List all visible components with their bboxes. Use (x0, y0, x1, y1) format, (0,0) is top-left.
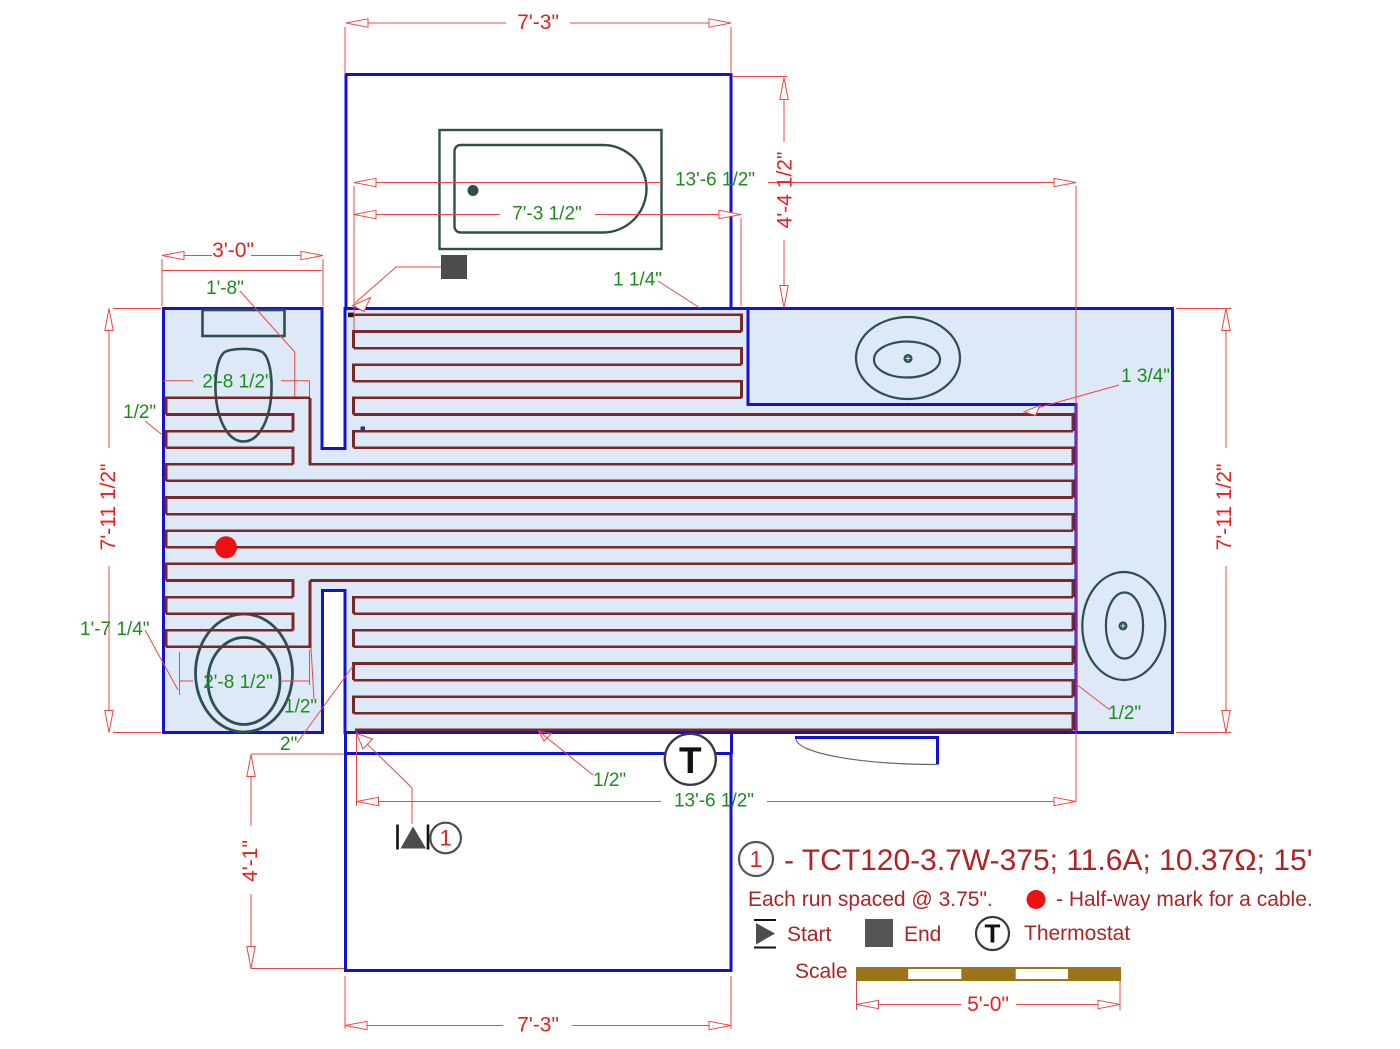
svg-text:- TCT120-3.7W-375; 11.6A; 10.3: - TCT120-3.7W-375; 11.6A; 10.37Ω; 15' (784, 844, 1312, 877)
bathtub inner basin (455, 145, 647, 233)
svg-text:7'-3": 7'-3" (517, 11, 559, 34)
heating cable run 22 (354, 680, 1074, 697)
svg-text:Each run spaced @ 3.75".: Each run spaced @ 3.75". (748, 888, 993, 911)
legend start symbol (754, 920, 776, 948)
sink right outer (1082, 572, 1165, 680)
svg-text:T: T (679, 740, 702, 781)
wall stub left of bottom room doorway (344, 733, 347, 755)
heating cable run 20 toilet room + riser (166, 581, 310, 647)
heating cable run 16 toilet room (166, 581, 293, 598)
heating cable run 4 (354, 381, 742, 398)
svg-text:1 1/4": 1 1/4" (613, 270, 662, 291)
heating cable run 11 full width (166, 498, 1073, 515)
dimension 3'-0" (162, 256, 323, 307)
heating cable run 24 (354, 713, 1074, 730)
wall stub right of bottom room (730, 734, 733, 755)
svg-text:1/2": 1/2" (284, 697, 317, 718)
legend end symbol (865, 919, 893, 947)
svg-text:2": 2" (280, 734, 297, 755)
heating cable run 25 (start run) (357, 730, 1074, 734)
heating cable run 2 (354, 348, 742, 365)
svg-text:13'-6 1/2": 13'-6 1/2" (675, 170, 755, 191)
door swing arc (796, 739, 937, 765)
heating cable run 3 (354, 365, 742, 382)
svg-text:7'-3 1/2": 7'-3 1/2" (512, 204, 582, 225)
svg-text:1'-7 1/4": 1'-7 1/4" (80, 619, 150, 640)
sink right inner (1106, 593, 1143, 659)
toilet 2 bowl inner (208, 638, 280, 725)
heating cable run 5 center (354, 398, 742, 415)
heating cable run 13 full width (166, 531, 1073, 548)
heating cable run 15 full width (166, 564, 1073, 581)
svg-text:1 3/4": 1 3/4" (1121, 366, 1170, 387)
svg-text:7'-3": 7'-3" (517, 1014, 559, 1037)
START circle 1 (430, 823, 461, 854)
svg-text:1/2": 1/2" (1108, 703, 1141, 724)
heating cable run 20 center (354, 647, 1074, 664)
svg-text:Scale: Scale (795, 960, 848, 983)
toilet 1 tank (203, 310, 285, 336)
svg-text:5'-0": 5'-0" (967, 993, 1009, 1016)
heating cable run 8 center (354, 448, 1074, 465)
dimension 4'-4 1/2" (vertical) (732, 77, 787, 307)
heating cable run 0 (end run) (349, 315, 742, 332)
svg-text:3'-0": 3'-0" (212, 239, 254, 262)
svg-text:1'-8": 1'-8" (206, 278, 244, 299)
heating cable run 19 center (354, 630, 1074, 647)
heating cable run 21 (354, 664, 1074, 681)
label 2-8 1/2 top dimension (164, 381, 310, 397)
cable START marker |triangle| (398, 825, 429, 850)
bathtub outer rim (440, 130, 662, 249)
heating cable run 10 full width (166, 481, 1073, 498)
svg-text:- Half-way mark for a cable.: - Half-way mark for a cable. (1056, 888, 1313, 911)
svg-text:2'-8 1/2": 2'-8 1/2" (202, 372, 272, 393)
svg-text:1/2": 1/2" (593, 770, 626, 791)
heating cable run 16 right (310, 581, 1073, 598)
heating cable run 17 toilet room (166, 597, 293, 614)
dimension 13'-6 1/2" bottom (357, 734, 1077, 806)
svg-text:7'-11 1/2": 7'-11 1/2" (97, 464, 120, 551)
heating cable run 19 toilet room (166, 630, 293, 647)
svg-text:1/2": 1/2" (123, 402, 156, 423)
heating cable run 8 toilet room (166, 448, 293, 465)
svg-text:1: 1 (439, 826, 451, 851)
dimension 7'-3" bottom (345, 976, 731, 1029)
heating cable run 12 full width (166, 514, 1073, 531)
heating cable run 7 center (354, 431, 1074, 448)
dimension 4'-1" (vertical, bottom room) (251, 754, 344, 969)
heating cable run 14 full width (half-way dot run) (166, 547, 1073, 564)
legend thermostat symbol (976, 917, 1009, 950)
svg-text:2'-8 1/2": 2'-8 1/2" (203, 672, 273, 693)
dimension 7'-3 1/2" (354, 215, 741, 307)
heating cable run 6 toilet room (166, 415, 293, 432)
bottom room outline (346, 754, 732, 971)
toilet 1 bowl (215, 349, 271, 442)
door leaf (795, 738, 938, 765)
toilet 2 bowl outer (196, 614, 293, 732)
dimension 7'-11 1/2" right (vertical) (1176, 309, 1231, 733)
main bathroom floor (heated area, light blue) (164, 309, 1173, 733)
END leader line (355, 267, 441, 303)
heating cable run 17 center (354, 597, 1074, 614)
heating cable run 7 toilet room (166, 431, 293, 448)
svg-text:4'-4 1/2": 4'-4 1/2" (774, 152, 797, 229)
scale bar (857, 968, 1121, 981)
legend circle 1 (739, 842, 773, 876)
half-way red dot marker (215, 536, 237, 558)
dimension 13'-6 1/2" top (354, 183, 1076, 802)
top room (tub room) outline (346, 75, 731, 309)
heating cable run 9 toilet room (166, 464, 293, 481)
heating cable run 1 (354, 332, 742, 349)
svg-text:End: End (904, 923, 941, 946)
svg-text:4'-1": 4'-1" (239, 840, 262, 882)
cable END marker (black square near tub) (441, 255, 467, 279)
heating cable run 5 toilet room (166, 398, 310, 415)
legend half-way dot (1027, 890, 1046, 909)
heating cable run 9 right + riser to toilet room (310, 398, 1073, 464)
svg-text:Start: Start (787, 923, 832, 946)
label 2-8 1/2 bottom dimension (180, 650, 310, 685)
sink right drain (1119, 621, 1128, 630)
thermostat symbol on plan (665, 734, 716, 785)
vanity counter wall (top right) (748, 309, 1076, 732)
START leader line (357, 734, 413, 825)
bathtub drain (468, 185, 479, 196)
sink top outer (856, 317, 960, 399)
svg-text:7'-11 1/2": 7'-11 1/2" (1213, 464, 1236, 551)
heating cable run 18 toilet room (166, 614, 293, 631)
svg-text:T: T (985, 919, 1001, 949)
dimension 5'-0" scale (857, 981, 1121, 1010)
heating cable run 23 (354, 697, 1074, 714)
heating cable run 6 center (354, 415, 1074, 432)
dimension 7'-11 1/2" left (vertical) (109, 309, 161, 733)
cable end cap (348, 313, 355, 318)
svg-text:Thermostat: Thermostat (1024, 922, 1130, 945)
heating cable run 18 center (354, 614, 1074, 631)
svg-text:13'-6 1/2": 13'-6 1/2" (674, 791, 754, 812)
svg-text:1: 1 (750, 846, 763, 872)
dimension 7'-3" top (345, 23, 731, 74)
sink top drain (904, 354, 913, 363)
sink top inner (874, 342, 940, 378)
heating cable serpentine (circuit 1) (166, 315, 1073, 734)
small blue tick (361, 427, 366, 431)
